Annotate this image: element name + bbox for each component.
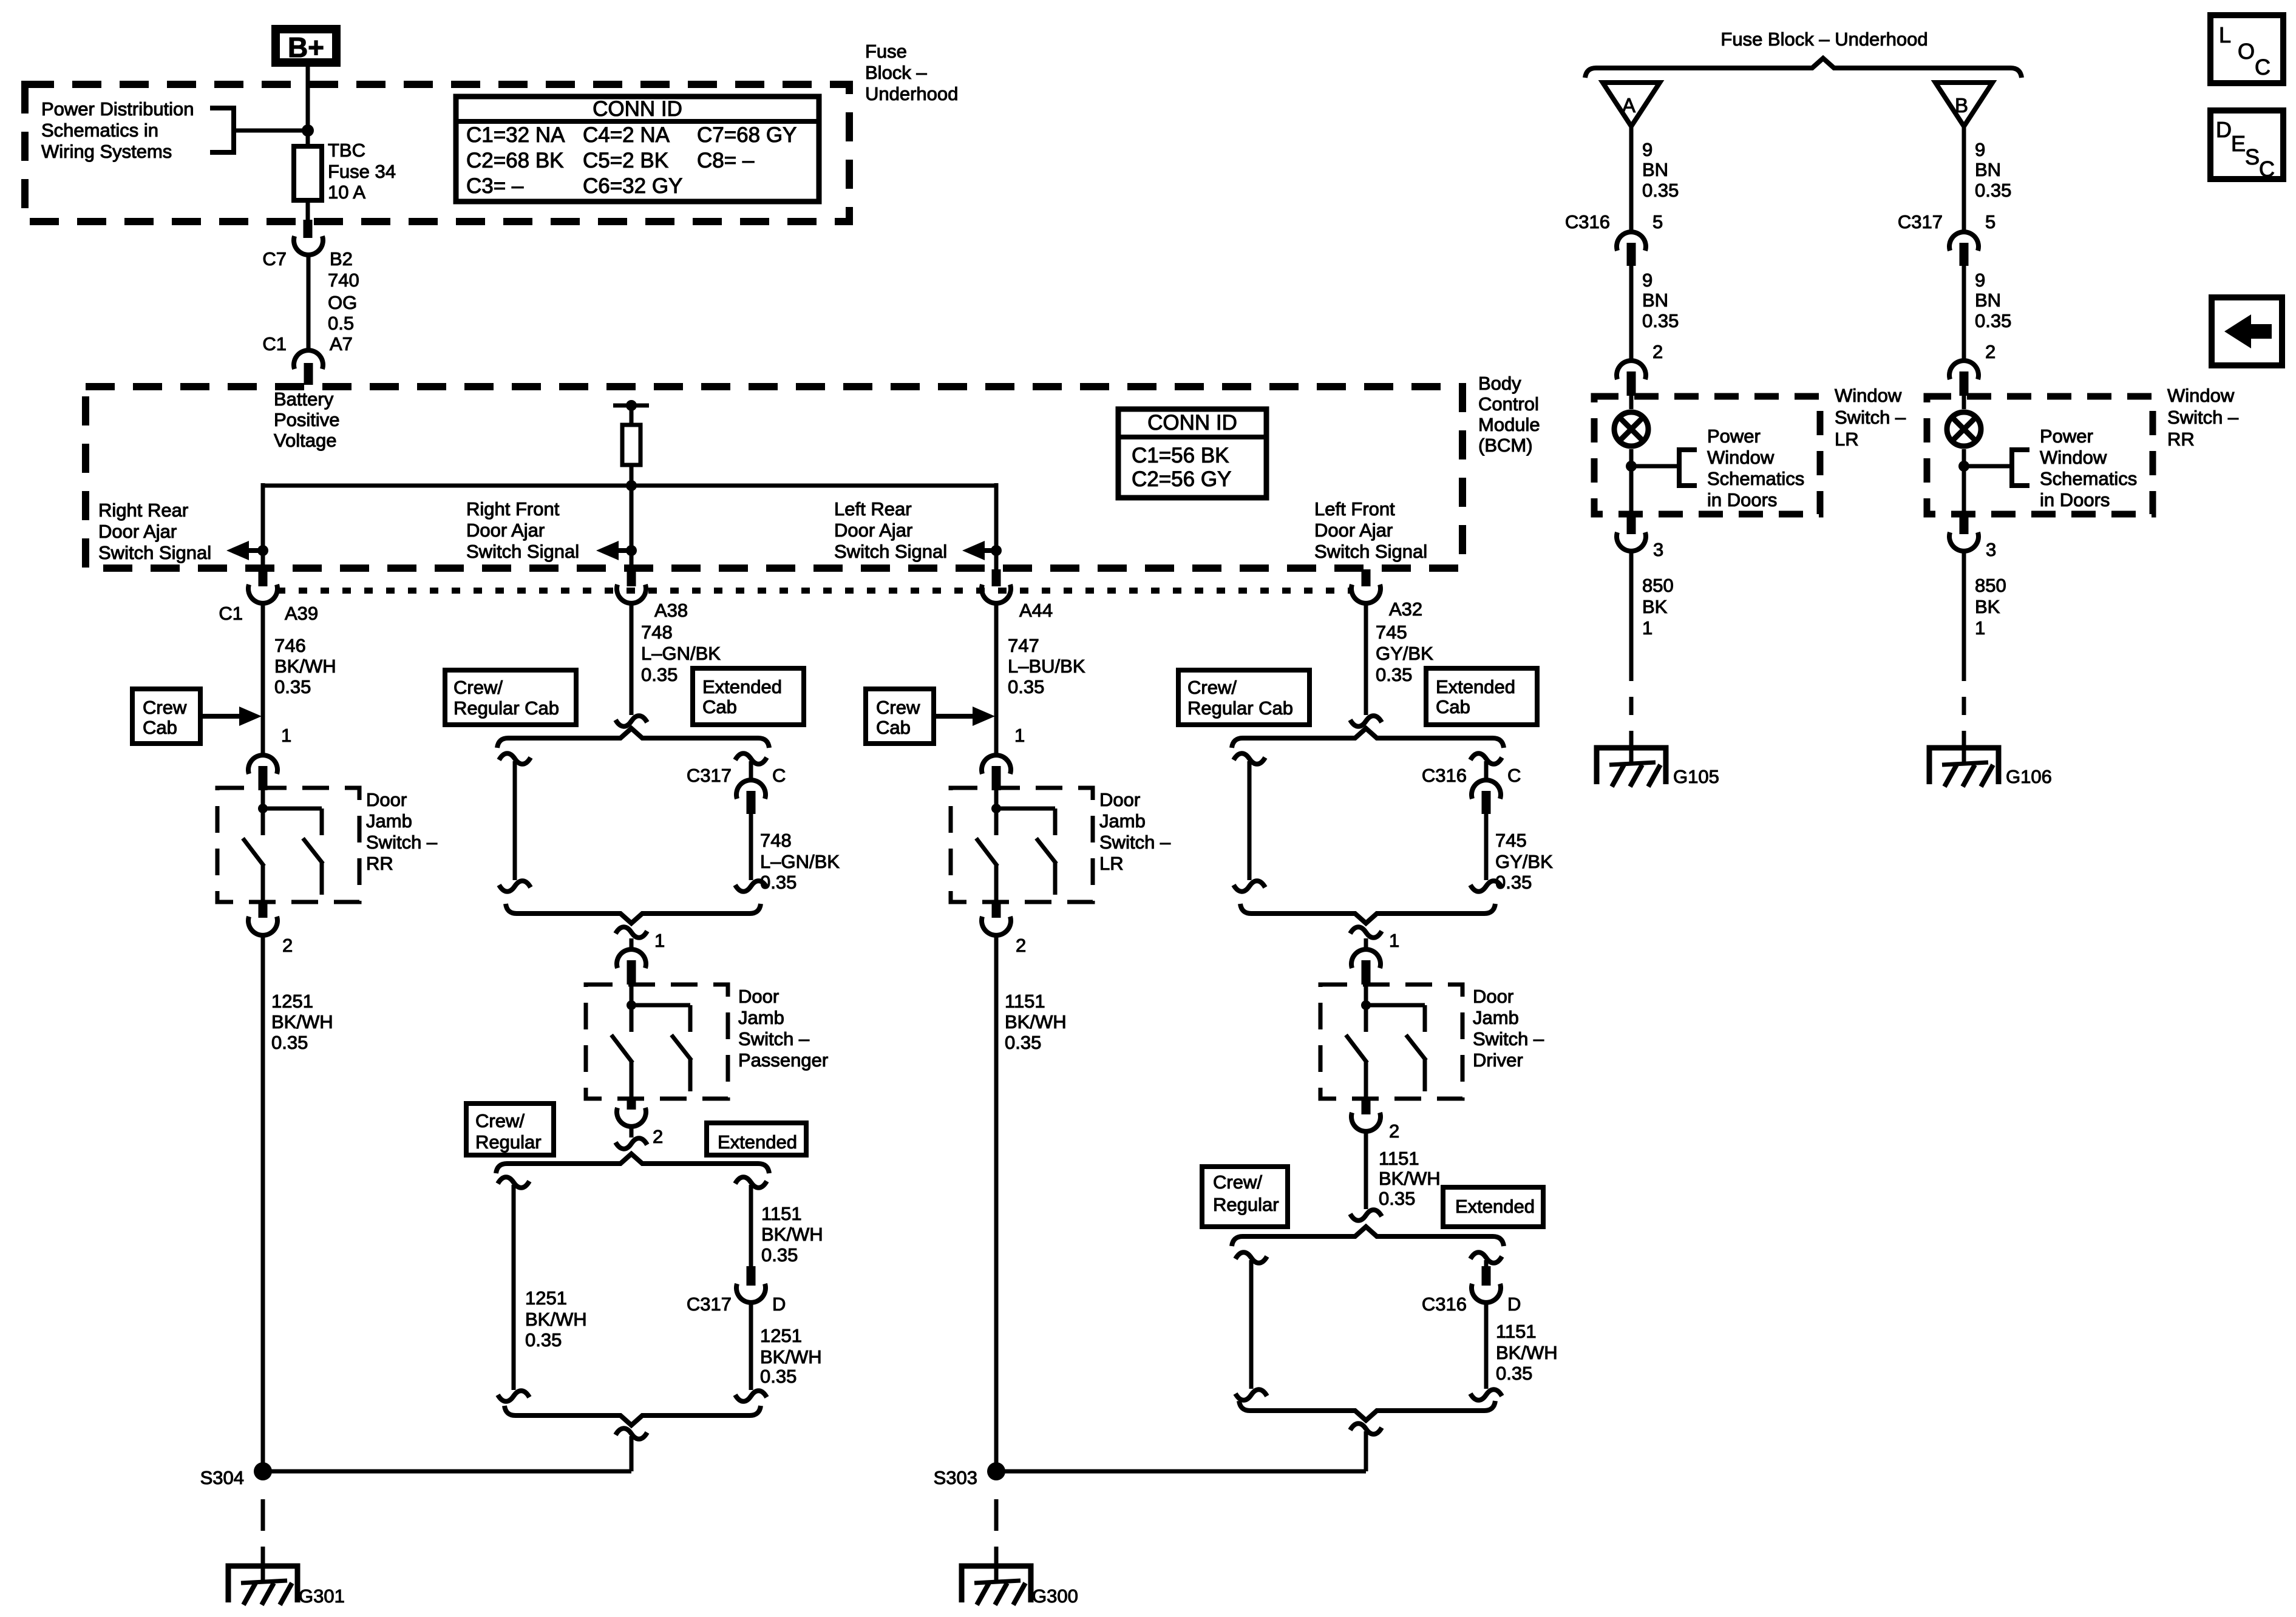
wire merge col2 to S304 (616, 1428, 647, 1439)
svg-text:C1=56 BK: C1=56 BK (1132, 444, 1229, 467)
LOC box (2210, 15, 2283, 83)
svg-text:Cab: Cab (702, 696, 737, 717)
svg-text:Driver: Driver (1473, 1049, 1523, 1071)
svg-text:C8= –: C8= – (697, 149, 755, 172)
wire B+ to fuse (306, 67, 310, 146)
connector pin A38 (627, 569, 636, 586)
svg-text:Switch Signal: Switch Signal (1314, 541, 1427, 562)
svg-text:Fuse: Fuse (865, 41, 907, 62)
svg-text:Power: Power (2040, 425, 2093, 447)
svg-text:Crew/: Crew/ (1213, 1171, 1262, 1193)
svg-text:BK: BK (1975, 596, 2000, 617)
svg-text:1: 1 (654, 930, 665, 951)
triangle A (1603, 83, 1660, 126)
connector pin 1 jamb passenger (630, 938, 634, 949)
svg-text:Switch –: Switch – (1473, 1028, 1544, 1049)
svg-text:Crew: Crew (143, 697, 187, 718)
crew cab arrow col1 (200, 714, 243, 719)
svg-text:Extended: Extended (1436, 676, 1515, 697)
svg-text:Door: Door (1099, 789, 1140, 810)
svg-text:0.35: 0.35 (1379, 1188, 1415, 1209)
svg-text:0.35: 0.35 (1008, 676, 1044, 697)
svg-text:in Doors: in Doors (1707, 489, 1777, 510)
svg-text:Switch –: Switch – (1099, 832, 1171, 853)
svg-text:C317: C317 (687, 765, 732, 786)
svg-text:1151: 1151 (1379, 1148, 1419, 1169)
svg-text:9: 9 (1975, 269, 1985, 291)
resistor pullup in BCM (613, 404, 649, 408)
svg-text:2: 2 (1389, 1120, 1399, 1142)
svg-text:C2=56 GY: C2=56 GY (1132, 467, 1231, 491)
svg-text:GY/BK: GY/BK (1376, 643, 1433, 664)
wire 1251 BK/WH below D (749, 1303, 753, 1390)
svg-text:Power Distribution: Power Distribution (41, 98, 194, 120)
svg-text:747: 747 (1008, 635, 1039, 656)
hook below merge col4 (1350, 927, 1382, 938)
branch crew col4 lower (1235, 1252, 1267, 1263)
extended cab box col4 (1426, 668, 1537, 725)
svg-text:Right Front: Right Front (466, 498, 560, 520)
svg-text:0.35: 0.35 (1975, 180, 2011, 201)
svg-text:G105: G105 (1673, 766, 1719, 787)
svg-text:G106: G106 (2006, 766, 2052, 787)
svg-text:D: D (1507, 1293, 1521, 1315)
arrow right front signal (614, 548, 631, 553)
svg-text:Crew/: Crew/ (1187, 677, 1237, 698)
svg-text:0.35: 0.35 (271, 1032, 308, 1053)
merge brace col4 lower (1239, 1401, 1495, 1420)
svg-text:Jamb: Jamb (1473, 1007, 1519, 1028)
svg-text:Regular: Regular (475, 1131, 542, 1153)
crew regular cab box col4 (1178, 670, 1309, 725)
svg-text:BN: BN (1975, 290, 2001, 311)
connector C317 pin C (736, 780, 766, 799)
wire 850 BK 1 left (1629, 551, 1634, 681)
wire 747 L-BU/BK 0.35 (994, 602, 999, 755)
svg-text:0.35: 0.35 (1495, 872, 1532, 893)
crew cab box col3 (866, 689, 934, 744)
svg-text:BN: BN (1642, 159, 1668, 180)
svg-text:1: 1 (281, 725, 291, 746)
crew cab arrow col3 (934, 714, 977, 719)
svg-text:C3= –: C3= – (466, 174, 524, 198)
svg-text:C7: C7 (262, 248, 287, 269)
brace fuse block underhood (1585, 58, 2022, 78)
wire 746 BK/WH 0.35 (261, 602, 265, 755)
svg-text:G300: G300 (1032, 1585, 1078, 1607)
dashed wire to G105 (1629, 697, 1634, 731)
svg-text:BK/WH: BK/WH (274, 656, 336, 677)
svg-text:L–GN/BK: L–GN/BK (641, 643, 721, 664)
wire 1151 BK/WH above split col4 (1364, 1131, 1368, 1209)
svg-text:Door Ajar: Door Ajar (466, 520, 545, 541)
svg-text:Left Rear: Left Rear (834, 498, 912, 520)
svg-text:0.35: 0.35 (760, 1366, 796, 1387)
svg-text:0.35: 0.35 (525, 1329, 562, 1351)
splice S303 (987, 1462, 1005, 1480)
svg-text:BN: BN (1975, 159, 2001, 180)
svg-text:0.35: 0.35 (761, 1244, 798, 1266)
svg-text:Switch –: Switch – (366, 832, 438, 853)
svg-text:B: B (1955, 94, 1968, 117)
svg-text:Switch Signal: Switch Signal (466, 541, 579, 562)
svg-text:9: 9 (1642, 269, 1652, 291)
svg-text:C317: C317 (1898, 211, 1943, 232)
connector window LR pin 2 (1617, 361, 1646, 379)
wire S304 to ground dashed (261, 1499, 265, 1551)
svg-text:1: 1 (1389, 930, 1399, 951)
junction dot on B+ wire (302, 124, 314, 137)
svg-text:Cab: Cab (1436, 696, 1470, 717)
wire 1151 BK/WH below D col4 (1484, 1303, 1489, 1389)
svg-text:Window: Window (1707, 447, 1775, 468)
svg-text:C: C (2259, 157, 2275, 181)
svg-text:Crew/: Crew/ (453, 677, 503, 698)
arrow left rear signal (980, 548, 996, 553)
svg-text:0.35: 0.35 (1496, 1363, 1532, 1384)
svg-text:10 A: 10 A (328, 181, 365, 203)
svg-text:Jamb: Jamb (738, 1007, 784, 1028)
wire S303 to ground dashed (994, 1499, 999, 1551)
svg-text:Switch Signal: Switch Signal (98, 542, 211, 563)
svg-text:BK/WH: BK/WH (1005, 1011, 1067, 1032)
svg-text:Block –: Block – (865, 62, 927, 83)
hook wire2 above brace (616, 716, 647, 727)
door jamb switch driver (1320, 985, 1462, 1099)
svg-text:C316: C316 (1422, 765, 1467, 786)
connector C316 pin 5 (1617, 232, 1646, 251)
branch crew col2 (499, 753, 531, 764)
svg-text:0.35: 0.35 (760, 872, 796, 893)
dashed wire to G106 (1962, 697, 1966, 731)
svg-text:Switch –: Switch – (1835, 407, 1906, 428)
svg-text:Window: Window (2040, 447, 2107, 468)
svg-text:S304: S304 (200, 1467, 244, 1488)
main conn id table (456, 97, 819, 202)
branch extended col2 upper wire (735, 753, 767, 764)
svg-text:Fuse 34: Fuse 34 (328, 161, 396, 182)
svg-text:in Doors: in Doors (2040, 489, 2110, 510)
svg-text:C6=32 GY: C6=32 GY (583, 174, 682, 198)
svg-text:Door Ajar: Door Ajar (834, 520, 912, 541)
wire 9 BN 0.35 B lower (1962, 266, 1966, 362)
wire 740 OG 0.5 (307, 254, 311, 351)
svg-text:L–BU/BK: L–BU/BK (1008, 656, 1085, 677)
svg-text:Door Ajar: Door Ajar (98, 521, 177, 542)
window switch RR dashed box (1927, 396, 2153, 514)
arrow box (2212, 297, 2282, 365)
wire1 drop inside BCM (261, 483, 265, 571)
svg-text:745: 745 (1495, 830, 1527, 851)
wire 9 BN 0.35 B upper (1962, 126, 1966, 234)
splice S304 (254, 1462, 272, 1480)
extended box col4 lower (1443, 1187, 1543, 1227)
wire 748 L-GN/BK 0.35 (630, 602, 634, 715)
bus wire battery voltage (263, 484, 996, 488)
svg-text:Battery: Battery (274, 388, 334, 410)
svg-text:0.35: 0.35 (1005, 1032, 1041, 1053)
svg-text:RR: RR (366, 853, 393, 874)
svg-text:Window: Window (2167, 385, 2235, 406)
svg-text:Door Ajar: Door Ajar (1314, 520, 1393, 541)
connector pin A44 (992, 569, 1001, 586)
svg-text:850: 850 (1642, 575, 1674, 596)
wire 745 GY/BK 0.35 (1364, 602, 1368, 715)
door jamb switch RR (217, 788, 359, 902)
hook wire4 above brace (1350, 716, 1382, 727)
svg-text:BK/WH: BK/WH (1379, 1168, 1441, 1189)
svg-text:0.35: 0.35 (1376, 664, 1412, 685)
ground G106 (1962, 731, 1966, 764)
branch crew col2 lower (498, 1177, 529, 1188)
svg-text:BK/WH: BK/WH (761, 1224, 823, 1245)
svg-text:Extended: Extended (1455, 1196, 1535, 1217)
split brace col4 lower (1232, 1227, 1504, 1246)
merge brace col4 upper (1240, 904, 1495, 923)
svg-text:2: 2 (282, 935, 293, 956)
svg-text:Door: Door (366, 789, 407, 810)
svg-text:BK/WH: BK/WH (760, 1346, 822, 1368)
svg-text:LR: LR (1835, 429, 1859, 450)
svg-text:G301: G301 (299, 1585, 345, 1607)
svg-text:E: E (2231, 131, 2246, 156)
connector window RR pin 3 (1960, 515, 1969, 534)
connector C7 pin B2 (304, 220, 313, 238)
DESC box (2210, 110, 2283, 179)
svg-text:C: C (2255, 55, 2271, 80)
svg-text:Control: Control (1478, 393, 1539, 415)
svg-text:Underhood: Underhood (865, 83, 958, 104)
connector pin 2 jamb LR (992, 901, 1001, 918)
svg-text:B+: B+ (288, 32, 324, 63)
svg-text:C316: C316 (1565, 211, 1610, 232)
svg-text:C5=2 BK: C5=2 BK (583, 149, 668, 172)
svg-text:C: C (1507, 765, 1521, 786)
svg-text:C4=2 NA: C4=2 NA (583, 123, 670, 147)
connector pin A32 (1362, 569, 1371, 586)
svg-text:Power: Power (1707, 425, 1761, 447)
door jamb switch passenger (586, 985, 728, 1099)
svg-text:L: L (2219, 22, 2231, 47)
svg-text:BK/WH: BK/WH (271, 1011, 333, 1032)
svg-text:748: 748 (641, 622, 673, 643)
svg-text:Regular Cab: Regular Cab (453, 697, 559, 719)
svg-text:850: 850 (1975, 575, 2006, 596)
lamp window switch LR (1629, 396, 1634, 409)
crew regular box col4 lower (1202, 1167, 1288, 1227)
svg-text:1: 1 (1014, 725, 1025, 746)
svg-text:Positive: Positive (274, 409, 340, 430)
svg-text:A38: A38 (654, 600, 688, 621)
svg-text:Extended: Extended (702, 676, 782, 697)
svg-text:Crew/: Crew/ (475, 1110, 525, 1131)
svg-text:Passenger: Passenger (738, 1049, 828, 1071)
svg-text:Right Rear: Right Rear (98, 500, 188, 521)
svg-text:C1: C1 (219, 603, 243, 624)
svg-text:9: 9 (1642, 139, 1652, 160)
svg-text:Jamb: Jamb (366, 810, 412, 832)
svg-text:1: 1 (1642, 617, 1652, 639)
svg-text:Wiring Systems: Wiring Systems (41, 141, 172, 162)
hook wire4 above lower brace (1350, 1210, 1382, 1221)
svg-text:S303: S303 (934, 1467, 977, 1488)
connector pin 2 jamb RR (259, 901, 268, 918)
svg-text:5: 5 (1985, 211, 1995, 232)
svg-text:745: 745 (1376, 622, 1407, 643)
svg-text:746: 746 (274, 635, 306, 656)
svg-text:C316: C316 (1422, 1293, 1467, 1315)
svg-text:OG: OG (328, 292, 357, 313)
svg-text:CONN ID: CONN ID (1147, 411, 1237, 435)
BCM connector face dotted line (277, 588, 1353, 594)
svg-text:C: C (772, 765, 786, 786)
svg-text:C1=32 NA: C1=32 NA (466, 123, 565, 147)
extended box col2 lower (707, 1123, 806, 1155)
split brace col2 lower (496, 1154, 769, 1173)
body control module dashed box (86, 387, 1462, 568)
svg-text:0.35: 0.35 (641, 664, 678, 685)
svg-text:3: 3 (1653, 539, 1663, 560)
wire pin2 to split col2 (630, 1127, 634, 1137)
ground G105 (1629, 731, 1634, 764)
svg-text:0.5: 0.5 (328, 313, 354, 334)
fuse F34 TBC 10A (294, 146, 322, 200)
connector C316 pin C (1472, 780, 1501, 799)
hook below merge col2 (616, 927, 647, 938)
svg-text:0.35: 0.35 (1975, 310, 2011, 331)
wire 850 BK 1 right (1962, 551, 1966, 681)
window switch LR dashed box (1594, 396, 1820, 514)
connector pin 1 jamb LR (982, 755, 1011, 774)
svg-text:C1: C1 (262, 333, 287, 354)
svg-text:CONN ID: CONN ID (593, 97, 682, 121)
svg-text:Voltage: Voltage (274, 430, 336, 451)
svg-text:Extended: Extended (718, 1131, 797, 1153)
crew cab box col1 (132, 689, 200, 744)
svg-text:B2: B2 (330, 248, 353, 269)
svg-text:Fuse Block – Underhood: Fuse Block – Underhood (1720, 29, 1927, 50)
svg-text:1151: 1151 (761, 1203, 802, 1224)
crew regular cab box col2 (445, 670, 576, 725)
svg-text:Module: Module (1478, 414, 1540, 435)
wire3 drop inside BCM (994, 483, 999, 571)
split brace col2 top (497, 728, 769, 748)
svg-text:1: 1 (1975, 617, 1985, 639)
connector C317 pin D (747, 1266, 756, 1286)
wire merge col4 to S303 (1350, 1423, 1382, 1434)
connector pin 2 jamb driver (1362, 1097, 1371, 1114)
wire 9 BN 0.35 A upper (1629, 126, 1634, 234)
connector window RR pin 2 (1949, 361, 1978, 379)
bracket power window RR (1964, 464, 2012, 469)
svg-text:1251: 1251 (271, 991, 313, 1012)
svg-text:1251: 1251 (525, 1287, 567, 1309)
svg-text:RR: RR (2167, 429, 2195, 450)
svg-text:BK: BK (1642, 596, 1668, 617)
fuse block underhood dashed box (25, 84, 849, 222)
branch crew col4 (1234, 753, 1265, 764)
triangle B (1935, 83, 1992, 126)
svg-text:Schematics: Schematics (2040, 468, 2137, 489)
svg-text:Schematics: Schematics (1707, 468, 1804, 489)
bracket power window LR (1631, 464, 1679, 469)
svg-text:Jamb: Jamb (1099, 810, 1146, 832)
svg-text:BK/WH: BK/WH (525, 1309, 587, 1330)
lamp window switch RR (1962, 396, 1966, 409)
svg-text:2: 2 (1985, 341, 1995, 362)
svg-text:Window: Window (1835, 385, 1902, 406)
svg-text:C2=68 BK: C2=68 BK (466, 149, 564, 172)
junction dot bus wire2 (626, 480, 637, 491)
svg-text:BK/WH: BK/WH (1496, 1342, 1558, 1363)
svg-text:Cab: Cab (143, 717, 177, 738)
svg-text:Crew: Crew (876, 697, 920, 718)
svg-text:9: 9 (1975, 139, 1985, 160)
connector C1 pin A7 (294, 350, 323, 369)
svg-text:D: D (772, 1293, 786, 1315)
svg-text:2: 2 (653, 1126, 663, 1147)
svg-text:5: 5 (1652, 211, 1663, 232)
svg-text:Body: Body (1478, 373, 1521, 394)
svg-text:Switch –: Switch – (738, 1028, 810, 1049)
svg-text:2: 2 (1652, 341, 1663, 362)
svg-text:(BCM): (BCM) (1478, 435, 1533, 456)
svg-text:C317: C317 (687, 1293, 732, 1315)
svg-text:S: S (2245, 144, 2260, 169)
svg-text:Cab: Cab (876, 717, 911, 738)
merge brace col2 upper (506, 904, 761, 923)
svg-text:GY/BK: GY/BK (1495, 851, 1553, 872)
connector window LR pin 3 (1627, 515, 1636, 534)
crew regular box col2 lower (466, 1103, 554, 1155)
svg-text:A39: A39 (285, 603, 318, 624)
svg-text:0.35: 0.35 (274, 676, 311, 697)
svg-text:TBC: TBC (328, 140, 365, 161)
wire lamp to dot RR (1962, 449, 1966, 517)
BCM conn id table (1118, 409, 1266, 498)
branch extended col2 lower wire (735, 1177, 767, 1188)
svg-text:O: O (2238, 39, 2255, 64)
svg-text:Door: Door (1473, 986, 1513, 1007)
svg-text:1151: 1151 (1496, 1321, 1537, 1342)
wire 745 GY/BK 0.35 extended branch (1484, 814, 1489, 880)
svg-text:A: A (1622, 94, 1635, 117)
split brace col4 top (1232, 728, 1504, 748)
arrow right rear signal (245, 548, 263, 553)
connector pin 1 jamb driver (1364, 938, 1368, 949)
connector C316 pin D (1482, 1266, 1491, 1286)
svg-text:0.35: 0.35 (1642, 180, 1679, 201)
connector C317 pin 5 (1949, 232, 1978, 251)
extended cab box col2 (693, 668, 804, 725)
wire 748 L-GN/BK 0.35 extended branch (749, 814, 753, 880)
svg-text:A32: A32 (1389, 598, 1422, 620)
svg-text:Regular Cab: Regular Cab (1187, 697, 1293, 719)
merge brace col2 lower (504, 1406, 761, 1425)
bracket to note (210, 108, 234, 152)
svg-text:Schematics in: Schematics in (41, 120, 158, 141)
connector pin 2 jamb passenger (627, 1097, 636, 1110)
wire 9 BN 0.35 A lower (1629, 266, 1634, 362)
svg-text:Door: Door (738, 986, 779, 1007)
svg-text:LR: LR (1099, 853, 1124, 874)
wire2 drop inside BCM (630, 486, 634, 571)
wire 1151 BK/WH 0.35 col3 (994, 935, 999, 1471)
svg-text:748: 748 (760, 830, 792, 851)
branch extended col4 lower wire (1470, 1252, 1502, 1263)
svg-text:Switch Signal: Switch Signal (834, 541, 947, 562)
door jamb switch LR (951, 788, 1093, 902)
